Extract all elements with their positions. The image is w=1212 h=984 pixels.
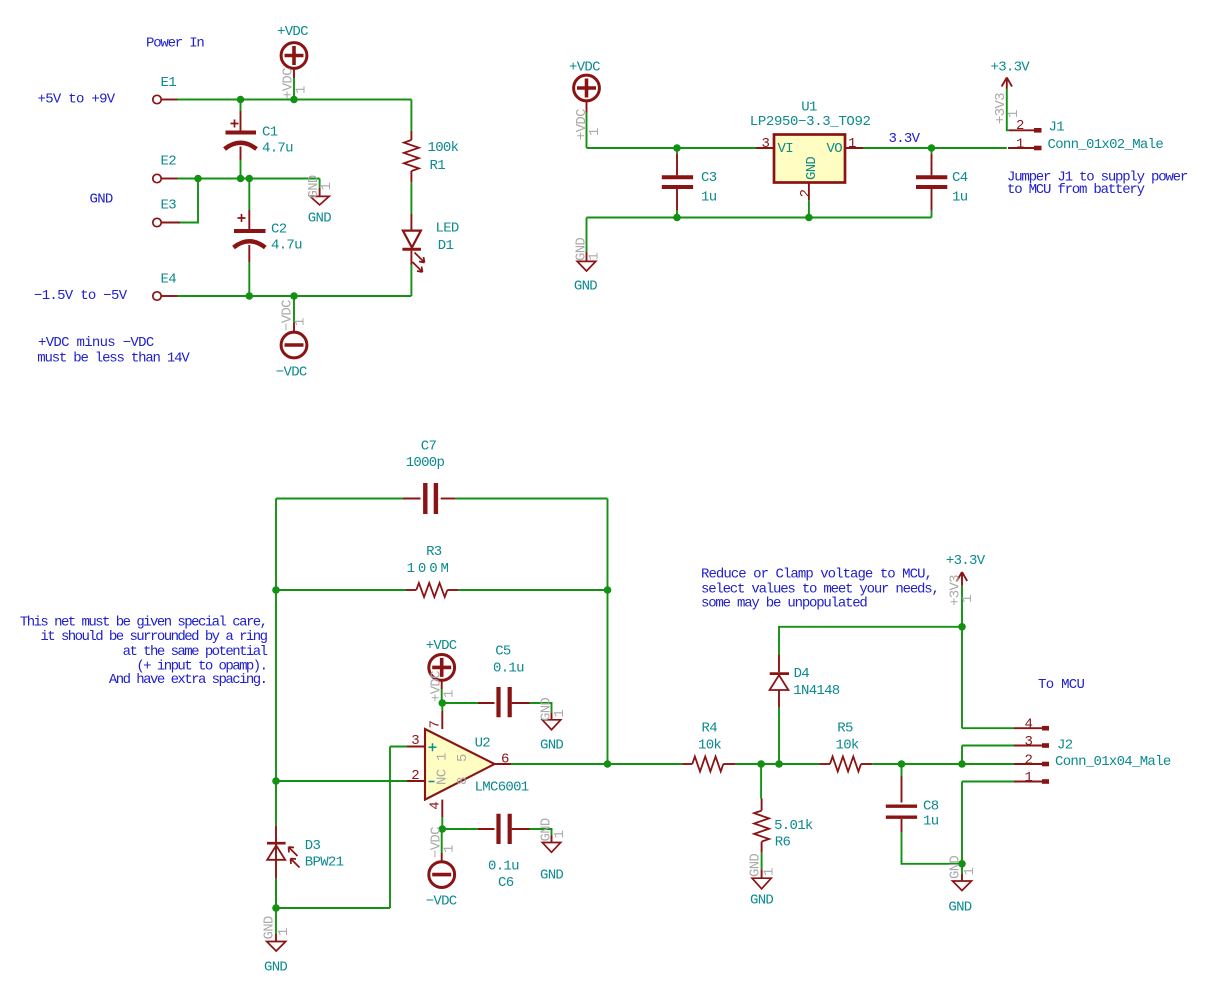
svg-text:C1: C1 [262, 124, 278, 140]
svg-text:Conn_01x04_Male: Conn_01x04_Male [1055, 754, 1171, 770]
svg-text:1: 1 [435, 753, 451, 761]
svg-text:1: 1 [848, 136, 856, 152]
svg-text:3: 3 [762, 136, 770, 152]
svg-text:Power In: Power In [146, 36, 204, 52]
svg-text:D3: D3 [305, 838, 321, 854]
svg-text:1: 1 [294, 86, 310, 94]
svg-text:VI: VI [778, 141, 793, 157]
svg-text:100M: 100M [407, 561, 452, 577]
svg-text:1: 1 [962, 868, 978, 876]
svg-text:D4: D4 [794, 666, 810, 682]
svg-text:LP2950−3.3_TO92: LP2950−3.3_TO92 [750, 114, 871, 130]
svg-text:6: 6 [501, 752, 509, 768]
svg-text:R5: R5 [837, 721, 853, 737]
svg-text:1: 1 [552, 831, 568, 839]
svg-text:GND: GND [90, 192, 113, 208]
svg-text:Reduce or Clamp voltage to MCU: Reduce or Clamp voltage to MCU, [701, 567, 932, 583]
svg-text:1000p: 1000p [406, 455, 445, 471]
svg-text:1N4148: 1N4148 [793, 683, 840, 699]
svg-text:1: 1 [552, 710, 568, 718]
svg-text:1u: 1u [952, 190, 968, 206]
svg-text:LED: LED [436, 221, 459, 237]
svg-text:+VDC minus −VDC: +VDC minus −VDC [38, 335, 154, 351]
svg-text:1u: 1u [701, 190, 717, 206]
svg-text:7: 7 [427, 721, 443, 729]
svg-text:1: 1 [293, 318, 309, 326]
svg-text:NC: NC [435, 769, 451, 785]
svg-text:4.7u: 4.7u [271, 237, 302, 253]
svg-text:J1: J1 [1049, 120, 1065, 136]
svg-text:1: 1 [1006, 110, 1022, 118]
svg-text:+3.3V: +3.3V [946, 553, 986, 569]
svg-text:2: 2 [1016, 118, 1024, 134]
svg-text:1: 1 [762, 868, 778, 876]
svg-text:GND: GND [264, 960, 287, 976]
svg-text:1: 1 [1016, 137, 1024, 153]
svg-text:1: 1 [1025, 770, 1033, 786]
svg-text:1: 1 [442, 690, 458, 698]
svg-text:−VDC: −VDC [276, 365, 307, 381]
svg-text:some may be unpopulated: some may be unpopulated [701, 596, 867, 612]
svg-text:E4: E4 [161, 272, 177, 288]
svg-text:C7: C7 [421, 438, 437, 454]
svg-text:GND: GND [574, 278, 597, 294]
svg-text:E2: E2 [161, 154, 177, 170]
svg-text:+VDC: +VDC [277, 24, 308, 40]
svg-text:C5: C5 [495, 643, 511, 659]
svg-text:1u: 1u [923, 814, 939, 830]
svg-text:3: 3 [411, 733, 419, 749]
svg-text:+3V3: +3V3 [993, 93, 1009, 124]
svg-text:R4: R4 [702, 721, 718, 737]
svg-text:U2: U2 [475, 736, 491, 752]
svg-text:And have extra spacing.: And have extra spacing. [109, 672, 267, 688]
svg-text:VO: VO [827, 141, 843, 157]
svg-text:R3: R3 [426, 544, 442, 560]
svg-text:C4: C4 [952, 170, 968, 186]
svg-text:10k: 10k [698, 737, 721, 753]
svg-text:1: 1 [319, 183, 335, 191]
svg-text:8: 8 [455, 777, 471, 785]
svg-text:−1.5V to −5V: −1.5V to −5V [34, 288, 128, 304]
svg-text:E1: E1 [161, 75, 177, 91]
svg-text:1: 1 [276, 928, 292, 936]
svg-text:5: 5 [455, 754, 471, 762]
svg-text:+VDC: +VDC [569, 60, 600, 76]
svg-text:C3: C3 [701, 170, 717, 186]
svg-text:J2: J2 [1057, 738, 1073, 754]
svg-text:C2: C2 [271, 222, 287, 238]
svg-text:2: 2 [411, 768, 419, 784]
svg-text:GND: GND [308, 211, 331, 227]
svg-text:1: 1 [960, 595, 976, 603]
svg-text:+5V to +9V: +5V to +9V [38, 92, 116, 108]
svg-text:0.1u: 0.1u [493, 660, 524, 676]
svg-text:−VDC: −VDC [426, 894, 457, 910]
svg-text:10k: 10k [836, 737, 859, 753]
svg-text:2: 2 [798, 189, 814, 197]
svg-text:4: 4 [427, 802, 443, 810]
svg-text:GND: GND [540, 867, 563, 883]
svg-text:2: 2 [1025, 752, 1033, 768]
svg-text:C8: C8 [923, 799, 939, 815]
svg-text:E3: E3 [161, 198, 177, 214]
svg-text:GND: GND [948, 900, 971, 916]
svg-text:it should be surrounded by a r: it should be surrounded by a ring [40, 629, 267, 645]
svg-text:R1: R1 [430, 158, 446, 174]
svg-text:1: 1 [587, 128, 603, 136]
svg-text:4: 4 [1025, 717, 1033, 733]
svg-text:To MCU: To MCU [1038, 677, 1085, 693]
svg-text:GND: GND [804, 157, 820, 180]
svg-text:C6: C6 [498, 875, 514, 891]
svg-text:LMC6001: LMC6001 [475, 780, 529, 796]
svg-text:R6: R6 [775, 834, 791, 850]
svg-text:D1: D1 [438, 238, 454, 254]
svg-text:must be less than 14V: must be less than 14V [37, 350, 190, 366]
svg-text:4.7u: 4.7u [262, 140, 293, 156]
svg-text:1: 1 [587, 253, 603, 261]
svg-text:3.3V: 3.3V [889, 131, 921, 147]
svg-text:0.1u: 0.1u [488, 859, 519, 875]
svg-text:to MCU from battery: to MCU from battery [1007, 182, 1145, 198]
svg-text:BPW21: BPW21 [305, 855, 344, 871]
svg-text:1: 1 [442, 845, 458, 853]
svg-text:5.01k: 5.01k [774, 818, 813, 834]
svg-text:3: 3 [1025, 734, 1033, 750]
svg-text:GND: GND [540, 738, 563, 754]
svg-text:GND: GND [750, 893, 773, 909]
svg-text:+3.3V: +3.3V [991, 60, 1031, 76]
svg-text:+VDC: +VDC [426, 638, 457, 654]
svg-text:Conn_01x02_Male: Conn_01x02_Male [1048, 137, 1164, 153]
svg-text:100k: 100k [428, 140, 459, 156]
